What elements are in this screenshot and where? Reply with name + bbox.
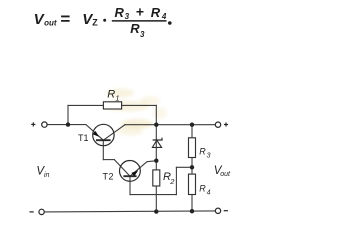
svg-text:+: + <box>136 3 144 19</box>
svg-text:1: 1 <box>115 93 119 102</box>
wire: R1 right lead <box>122 104 157 106</box>
svg-text:R: R <box>151 5 161 20</box>
svg-text:T1: T1 <box>78 133 89 143</box>
svg-text:R: R <box>115 5 125 20</box>
svg-text:R: R <box>199 146 206 156</box>
transistor T2 emitter arrow (points up-right) <box>131 170 138 176</box>
formula fraction bar <box>112 20 167 22</box>
svg-text:3: 3 <box>125 12 130 21</box>
junction dot: input node <box>66 122 70 126</box>
polarity mark: plus at input <box>31 122 35 126</box>
wire: top rail from T1 collector to right terminal <box>125 124 215 126</box>
polarity mark: minus at input <box>30 211 34 213</box>
svg-text:in: in <box>44 172 50 179</box>
wire: R3 top lead <box>191 125 193 138</box>
terminal: input positive <box>42 122 47 127</box>
junction dot: R2 bottom rail node <box>154 209 158 213</box>
wire: R2 top lead <box>155 161 157 170</box>
svg-text:R: R <box>199 183 206 193</box>
formula trailing period <box>168 21 172 25</box>
junction dot: zener / R2 / T2 emitter node <box>154 159 158 163</box>
svg-text:4: 4 <box>207 189 211 196</box>
highlighter stain on R1 <box>103 101 149 112</box>
transistor T1 collector line <box>103 125 125 141</box>
terminal: output negative <box>215 208 220 213</box>
svg-text:out: out <box>44 19 57 28</box>
wire: top-left input to junction <box>47 124 86 126</box>
wire: T1 base to T2 <box>103 159 114 161</box>
svg-text:T2: T2 <box>103 172 115 182</box>
svg-text:R: R <box>130 21 140 36</box>
terminal: output positive <box>215 122 220 127</box>
junction dot: rail / R3 node <box>190 123 194 127</box>
polarity mark: minus at output <box>224 210 228 212</box>
svg-text:4: 4 <box>161 12 167 21</box>
zener diode D1 triangle <box>152 140 161 147</box>
resistor R3 body <box>189 138 196 158</box>
highlighter stain right of R1 <box>140 96 160 106</box>
highlighter stain right of T1 <box>121 119 153 129</box>
junction dot: divider tap node <box>190 165 194 169</box>
wire: R2 bottom lead <box>155 186 157 212</box>
terminal: input negative <box>39 209 44 214</box>
junction dot: R4 bottom rail node <box>190 209 194 213</box>
wire: R1 left lead <box>68 104 103 106</box>
junction dot: rail / R1 / zener node <box>154 123 158 127</box>
svg-text:Z: Z <box>92 18 98 28</box>
svg-text:=: = <box>60 10 70 29</box>
wire: zener string (through diode) <box>155 125 157 161</box>
wire: bottom rail <box>44 211 215 212</box>
wire: feedback to divider tap <box>176 166 192 168</box>
polarity mark: plus at output <box>224 122 228 126</box>
highlighter stain below rail <box>117 127 143 136</box>
resistor R2 body <box>153 170 160 186</box>
formula multiplication dot <box>103 19 106 22</box>
highlighter stain above R1 <box>106 89 134 98</box>
transistor T1 base lead down <box>102 140 104 159</box>
transistor T2 collector line (from T1 base) <box>114 160 130 177</box>
wire: drop from R1 right lead to top rail <box>155 105 157 124</box>
highlighter stain near zener top <box>153 107 167 119</box>
svg-text:3: 3 <box>140 30 145 39</box>
resistor R1 body <box>103 102 121 109</box>
zener diode D1 cathode bar <box>153 138 162 140</box>
wire: feedback bottom run <box>130 194 176 196</box>
transistor T1 emitter line <box>86 125 103 141</box>
wire: R3-R4 middle link <box>191 158 193 175</box>
transistor T1 emitter arrow (PNP, points to bar) <box>93 131 99 137</box>
wire: feedback riser <box>175 167 177 194</box>
transistor T1 circle <box>93 124 114 145</box>
transistor T2 base bar <box>123 175 136 177</box>
transistor T2 emitter line <box>130 161 156 177</box>
transistor T2 base lead down <box>129 176 131 194</box>
wire: vertical from input junction up to R1 <box>67 105 69 124</box>
wire: R4 bottom lead <box>191 195 193 212</box>
transistor T2 circle <box>119 161 140 182</box>
svg-text:3: 3 <box>207 152 211 159</box>
svg-text:R: R <box>107 89 115 101</box>
svg-text:out: out <box>220 171 231 178</box>
resistor R4 body <box>189 174 196 194</box>
svg-text:2: 2 <box>169 177 175 186</box>
transistor T1 base bar <box>96 139 111 141</box>
